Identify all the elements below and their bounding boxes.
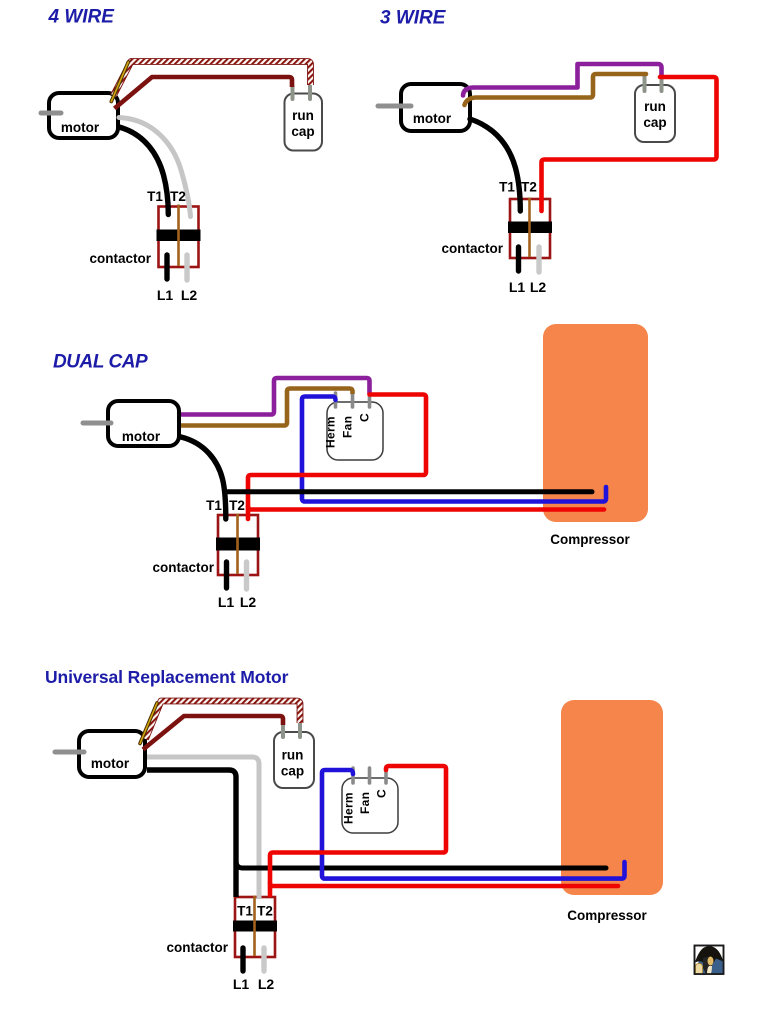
wire: purple (motor M3 to dual cap C terminal) (181, 378, 370, 415)
terminal L1 stub (K3) (224, 562, 229, 588)
terminal L1 stub (K4) (240, 948, 245, 971)
svg-text:C: C (358, 413, 372, 422)
wire: red (dual cap C terminal to contactor K4 T2 area) (270, 766, 446, 895)
svg-text:T1: T1 (237, 904, 253, 919)
svg-text:Herm: Herm (324, 416, 338, 448)
svg-text:T1: T1 (499, 180, 515, 195)
wire: red branch (to compressor, section 4) (270, 883, 618, 886)
svg-text:contactor: contactor (152, 560, 214, 575)
run capacitor C1 (285, 94, 323, 151)
svg-text:T1: T1 (147, 189, 163, 204)
svg-text:T2: T2 (257, 904, 273, 919)
dual capacitor C3 terminal stubs (334, 393, 338, 407)
run capacitor C2 terminal stubs (643, 77, 647, 92)
terminal L2 stub (K1) (184, 255, 189, 280)
wire: black (motor M4 to contactor K4 T1) (147, 770, 236, 897)
svg-text:L2: L2 (181, 287, 198, 303)
wire: thin gold lead at motor M1 (111, 62, 128, 102)
run capacitor C1 label (291, 108, 314, 139)
run capacitor C4 (274, 732, 314, 788)
wire: brown (motor M2 to run cap C2 left terminal) (465, 74, 647, 105)
wire: gray (motor M1 to contactor K1 T2) (119, 118, 191, 217)
wire: blue (dual cap Herm terminal to compressor) (302, 397, 606, 502)
svg-text:T1: T1 (206, 498, 222, 513)
svg-text:contactor: contactor (89, 251, 151, 266)
contactor K1 contact bar (157, 230, 201, 242)
wire: brown (motor M3 to dual cap Fan terminal) (181, 389, 353, 426)
contactor K4 (233, 896, 277, 958)
wire: black branch (to compressor) (225, 489, 592, 494)
svg-text:Herm: Herm (342, 792, 356, 824)
svg-text:cap: cap (281, 764, 304, 779)
wire: striped start winding (motor M4 to run cap C4 right terminal) (146, 701, 301, 739)
svg-text:Universal Replacement Motor: Universal Replacement Motor (45, 667, 289, 687)
contactor K3 (216, 514, 260, 576)
svg-text:3 WIRE: 3 WIRE (380, 8, 447, 29)
dual capacitor C5 (Herm / Fan / C) (342, 778, 398, 833)
wire: red branch (contactor K3 T2 to compressor) (248, 507, 604, 510)
dual capacitor C5 labels (rotated) (342, 789, 389, 824)
terminal L2 stub (K3) (244, 562, 249, 589)
wire: purple (motor M2 to run cap C2 right terminal) (463, 64, 662, 96)
svg-text:T2: T2 (170, 189, 186, 204)
run capacitor C4 terminal stubs (281, 723, 285, 737)
svg-text:L1: L1 (233, 976, 250, 992)
svg-text:L1: L1 (509, 279, 526, 295)
contactor K4 contact bar (233, 921, 277, 932)
svg-text:C: C (375, 789, 389, 798)
svg-text:contactor: contactor (441, 241, 503, 256)
wire: red (dual cap C terminal to contactor K3 T2) (248, 395, 426, 520)
svg-text:motor: motor (413, 111, 452, 126)
dual capacitor C3 labels (rotated) (324, 413, 372, 448)
wire: blue (dual cap Herm terminal to compressor, section 4) (322, 770, 625, 879)
contactor K1 coil line (brown) (177, 205, 180, 267)
contactor K2 (508, 198, 552, 259)
motor M1 shaft (41, 111, 61, 116)
contactor K4 coil line (brown) (253, 896, 256, 957)
run capacitor C4 label (281, 748, 304, 779)
motor M1 (49, 93, 118, 138)
watermark logo (bottom right) (695, 946, 724, 975)
svg-text:cap: cap (291, 124, 314, 139)
wire: black (motor M1 to contactor K1 T1) (119, 127, 168, 215)
svg-text:Fan: Fan (358, 792, 372, 814)
contactor K1 (157, 205, 201, 268)
compressor (section 3) (543, 324, 648, 522)
svg-text:run: run (644, 99, 666, 114)
svg-text:L2: L2 (530, 279, 547, 295)
wire: black (motor M2 to contactor K2 T1) (470, 119, 520, 211)
svg-text:T2: T2 (521, 180, 537, 195)
svg-text:L1: L1 (157, 287, 174, 303)
svg-text:motor: motor (91, 756, 130, 771)
motor M4 (79, 731, 145, 777)
svg-text:L2: L2 (258, 976, 275, 992)
contactor K3 coil line (brown) (236, 514, 239, 575)
run capacitor C2 label (643, 99, 666, 130)
wire: dark red run winding (motor M4 to run cap C4 left terminal) (143, 716, 283, 750)
dual capacitor C3 (Herm / Fan / C) (327, 402, 383, 460)
svg-text:Fan: Fan (341, 416, 355, 438)
wire: thin gold lead at motor M4 (140, 703, 157, 744)
wire: red (run cap C2 right terminal to contactor K2 T2) (542, 77, 717, 211)
svg-text:T2: T2 (229, 498, 245, 513)
wire: gray (motor M4 to contactor K4 T2) (147, 757, 259, 899)
wire: striped start winding (motor M1 to run cap C1 right terminal) (114, 62, 311, 96)
svg-text:contactor: contactor (166, 940, 228, 955)
wire: black branch (to compressor, section 4) (236, 861, 606, 868)
terminal L2 stub (K2) (536, 247, 541, 272)
motor M3 shaft (83, 421, 111, 426)
contactor K3 contact bar (216, 538, 260, 551)
wire: dark red run winding (motor M1 to run cap C1 left terminal) (115, 77, 293, 109)
svg-text:L1: L1 (218, 594, 235, 610)
svg-text:4 WIRE: 4 WIRE (48, 7, 116, 28)
motor M3 (108, 401, 179, 446)
terminal L1 stub (K1) (164, 255, 169, 279)
svg-text:DUAL CAP: DUAL CAP (53, 352, 148, 373)
terminal L2 stub (K4) (261, 948, 266, 971)
motor M2 shaft (378, 104, 411, 109)
svg-text:run: run (292, 108, 314, 123)
svg-text:motor: motor (122, 429, 161, 444)
svg-text:run: run (282, 748, 304, 763)
svg-text:Compressor: Compressor (567, 908, 647, 923)
run capacitor C1 terminal stubs (291, 86, 295, 99)
svg-text:cap: cap (643, 115, 666, 130)
dual capacitor C5 terminal stubs (351, 768, 355, 783)
svg-text:motor: motor (61, 120, 100, 135)
wire: black (motor M3 to contactor K3 T1) (181, 437, 226, 519)
compressor (section 4) (561, 700, 663, 895)
terminal L1 stub (K2) (516, 247, 521, 271)
motor M4 shaft (55, 750, 84, 755)
motor M2 (401, 84, 470, 131)
svg-text:Compressor: Compressor (550, 532, 630, 547)
run capacitor C2 (635, 85, 675, 142)
svg-text:L2: L2 (240, 594, 257, 610)
contactor K2 contact bar (508, 222, 552, 234)
contactor K2 coil line (brown) (528, 198, 531, 258)
